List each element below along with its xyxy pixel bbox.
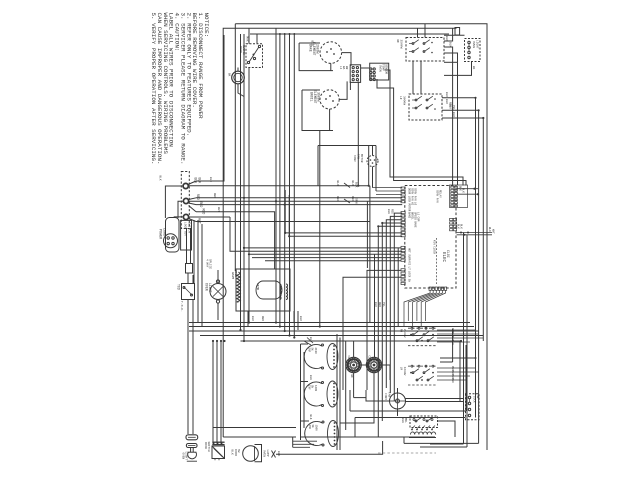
svg-text:BLK: BLK: [449, 104, 452, 109]
svg-text:MAX: MAX: [246, 37, 249, 42]
svg-text:SW: SW: [237, 449, 240, 453]
svg-text:4 WAY: 4 WAY: [206, 259, 209, 268]
splice RED on supply: [336, 196, 358, 204]
svg-text:1500: 1500: [314, 425, 317, 432]
wire ELEC bus stubs up: [284, 190, 402, 237]
label lamp LT2: [263, 450, 269, 458]
wire ELEC P5 feeds: [343, 270, 401, 390]
svg-text:CONV: CONV: [353, 155, 356, 162]
switch SW6 RR surface: [400, 327, 438, 346]
motor M5 fan: [384, 392, 406, 409]
bake element E1: [309, 42, 342, 64]
svg-text:BROIL: BROIL: [310, 92, 314, 102]
svg-text:FAN: FAN: [357, 154, 360, 159]
svg-text:BLK: BLK: [309, 375, 312, 380]
svg-text:1200W: 1200W: [403, 367, 406, 376]
svg-text:BLK: BLK: [355, 182, 358, 188]
broil element E2: [310, 90, 340, 109]
svg-text:INF: INF: [308, 425, 311, 430]
border outer frame: [235, 24, 487, 450]
label lower bus: [251, 316, 302, 321]
svg-text:BLK: BLK: [309, 415, 312, 420]
svg-text:DOOR LOCK MOTOR: DOOR LOCK MOTOR: [408, 188, 411, 212]
svg-text:BLK: BLK: [159, 176, 162, 181]
svg-text:RF: RF: [396, 40, 399, 44]
wire N left bus: [240, 34, 242, 330]
wire long run to control: [230, 217, 402, 251]
wire center drops: [276, 28, 320, 337]
svg-text:HOLD: HOLD: [234, 270, 237, 277]
wire broil loop: [302, 81, 350, 130]
wire bus lower: [189, 323, 483, 342]
wire selector left links: [301, 337, 313, 440]
svg-text:BLK: BLK: [445, 92, 448, 97]
svg-text:SW: SW: [311, 348, 314, 352]
svg-text:LAMP: LAMP: [266, 450, 269, 457]
svg-text:CONV FAN: CONV FAN: [436, 190, 439, 203]
svg-text:OVEN: OVEN: [182, 453, 185, 460]
oven control U1 ELEC: [405, 186, 456, 289]
border inner frame: [223, 28, 459, 438]
svg-text:BK: BK: [228, 73, 231, 77]
motor M2 convection (dashed): [353, 154, 378, 167]
wire unit3 bottom links: [293, 437, 317, 447]
svg-text:XFMR: XFMR: [256, 283, 259, 290]
svg-text:2100W: 2100W: [403, 329, 406, 338]
wire right-bottom verticals: [460, 341, 466, 411]
svg-text:OVEN: OVEN: [379, 65, 382, 72]
wire splice corner drops: [367, 186, 370, 323]
svg-text:3000W: 3000W: [402, 96, 405, 105]
connector P2 pins (left top): [401, 187, 417, 212]
svg-text:POWER: POWER: [158, 229, 162, 239]
svg-text:LF: LF: [399, 96, 402, 100]
svg-text:SW: SW: [476, 395, 479, 399]
svg-text:BROIL: BROIL: [411, 212, 414, 220]
wire SW7 top feeds: [440, 357, 477, 359]
svg-text:CLK: CLK: [347, 356, 350, 361]
wire terminal drops: [194, 220, 202, 327]
svg-text:BLK: BLK: [488, 227, 491, 232]
wire center lower drops: [213, 341, 221, 443]
svg-text:OVEN: OVEN: [205, 283, 209, 291]
wire fan feeds: [366, 388, 463, 416]
connector P5 pins (left bottom): [401, 269, 411, 285]
svg-text:2100: 2100: [314, 348, 317, 355]
svg-text:CONV: CONV: [384, 393, 387, 400]
resistor R1 element: [231, 270, 240, 302]
svg-text:RED: RED: [451, 378, 454, 383]
lamp LT2 oven bottom: [243, 445, 262, 462]
svg-text:CONV FAN LO: CONV FAN LO: [414, 188, 417, 206]
svg-text:SPLICE: SPLICE: [209, 259, 212, 269]
svg-text:SWITCH: SWITCH: [188, 222, 191, 233]
svg-text:RED: RED: [196, 194, 200, 200]
svg-text:LIGHT: LIGHT: [208, 283, 212, 293]
label fuse area: [206, 259, 212, 269]
switch SW9 lock column: [466, 394, 480, 420]
svg-text:RED: RED: [199, 202, 203, 208]
wire L1 left bus: [234, 24, 236, 271]
svg-text:BAKE: BAKE: [408, 212, 411, 219]
wire transformer drops: [244, 311, 298, 330]
selector switch SW5A: [304, 344, 338, 370]
svg-text:BLK: BLK: [299, 316, 302, 321]
svg-text:CLK: CLK: [368, 356, 371, 361]
wire ELEC P2 feeds: [373, 188, 403, 195]
wire bake loop: [299, 41, 351, 71]
svg-text:CORD: CORD: [162, 228, 166, 236]
svg-text:TEMP: TEMP: [382, 64, 385, 71]
wire contact column drops: [337, 334, 346, 450]
svg-text:RR: RR: [400, 329, 403, 333]
svg-text:BLK: BLK: [251, 316, 254, 321]
svg-text:INF: INF: [308, 348, 311, 353]
selector switch SW5C: [305, 421, 339, 447]
timer motor M3 (detailed): [346, 356, 361, 379]
wire RED supply runs: [189, 198, 403, 205]
svg-text:WHT: WHT: [217, 207, 220, 212]
connector P7 pins (right top): [436, 185, 468, 208]
svg-text:DOOR: DOOR: [234, 449, 237, 456]
svg-text:BLK: BLK: [445, 99, 448, 104]
svg-text:FAN: FAN: [387, 392, 390, 397]
svg-text:LIGHT: LIGHT: [476, 40, 479, 49]
sensor S1 oven: [370, 63, 389, 80]
transformer T1: [256, 281, 287, 300]
svg-text:BLK: BLK: [401, 418, 404, 423]
switch SW3 oven light: [465, 39, 481, 62]
wire top inner run: [250, 33, 449, 35]
power cord plug P1: [158, 218, 180, 253]
svg-text:HOT SURFACE LT: HOT SURFACE LT: [408, 248, 411, 270]
connector P8 bottom header: [404, 287, 447, 327]
svg-text:LOCK: LOCK: [473, 396, 476, 403]
label trunk wires: [374, 302, 385, 307]
svg-text:BR: BR: [345, 66, 348, 70]
terminal arrow bottom: [272, 451, 281, 458]
svg-text:SENSOR: SENSOR: [385, 64, 388, 74]
svg-text:BLK: BLK: [351, 181, 354, 187]
wire SW6 terminals: [437, 328, 483, 345]
svg-text:YEL: YEL: [382, 302, 385, 307]
svg-text:INF: INF: [308, 385, 311, 390]
connector J1: [339, 65, 361, 83]
ELEC interior divider: [433, 238, 437, 285]
svg-text:2500W: 2500W: [399, 40, 402, 49]
notes text block: [150, 13, 210, 165]
wire selector feed diagonals: [304, 338, 313, 346]
wire SW1 terminals: [444, 28, 458, 185]
svg-text:RED: RED: [391, 209, 394, 214]
svg-text:BLK: BLK: [460, 224, 463, 229]
label box LOCK-OUT: [181, 220, 192, 250]
relay K1 door lock: [239, 37, 263, 68]
svg-text:DOOR: DOOR: [204, 442, 207, 449]
svg-text:ELEMENT: ELEMENT: [313, 90, 317, 103]
svg-text:DOOR: DOOR: [239, 46, 242, 53]
wire L2 left bus: [243, 34, 245, 341]
svg-text:SWITCH: SWITCH: [242, 45, 245, 55]
wire bottom bus: [223, 437, 478, 443]
svg-text:OVEN: OVEN: [263, 450, 266, 457]
svg-text:BK: BK: [350, 375, 353, 379]
svg-text:L1 COM: L1 COM: [417, 212, 420, 222]
oven lamp LT1: [205, 270, 227, 320]
splice BLK on supply: [336, 181, 358, 188]
connector P3 pins (left mid): [401, 212, 420, 237]
svg-text:BLK: BLK: [451, 340, 454, 345]
wire SW3 stub: [444, 35, 475, 75]
oven light assembly PB1: [182, 435, 198, 461]
wire SW6 to SW7 link: [440, 329, 453, 362]
svg-text:ELEC: ELEC: [441, 252, 445, 263]
svg-text:RED: RED: [202, 209, 206, 215]
svg-text:SW: SW: [311, 425, 314, 429]
label wire RED: [196, 194, 206, 214]
svg-text:LOCK SW: LOCK SW: [408, 271, 411, 282]
svg-text:BLK: BLK: [449, 42, 452, 47]
svg-text:CLOC: CLOC: [446, 250, 450, 258]
label wire BLK: [194, 178, 202, 184]
label mid supply: [209, 177, 220, 212]
wire rotary runs: [340, 341, 390, 423]
svg-text:SPEED BAKE: SPEED BAKE: [414, 212, 417, 228]
switch SW1 RF surface: [396, 38, 444, 62]
svg-text:BLK: BLK: [387, 209, 390, 214]
fuse F1: [186, 228, 193, 273]
wire cord to terminals: [159, 176, 184, 219]
svg-text:LIGHT: LIGHT: [185, 452, 188, 461]
svg-text:MOTOR: MOTOR: [360, 154, 363, 163]
selector switch SW5B: [304, 381, 338, 407]
wire sensor runs: [358, 68, 466, 186]
wire bus mid verticals: [420, 233, 467, 448]
svg-text:BLK: BLK: [452, 112, 455, 117]
svg-text:T.O.D.: T.O.D.: [180, 301, 183, 312]
svg-text:BA: BA: [342, 66, 345, 70]
wire conv motor feed: [318, 146, 376, 192]
svg-text:BLK: BLK: [374, 302, 377, 307]
svg-text:ORN: ORN: [355, 198, 358, 204]
switch SW4 door: [204, 442, 225, 461]
svg-text:RED: RED: [261, 316, 264, 321]
switch SW8 warmer: [410, 416, 438, 428]
wire W supply runs: [189, 206, 370, 270]
wire lower-right runs: [350, 390, 466, 437]
wire faint bottom dashed: [378, 452, 436, 454]
svg-text:SWITCH: SWITCH: [207, 442, 210, 452]
svg-text:BLK: BLK: [231, 450, 234, 455]
wire top feed drops: [249, 24, 425, 94]
connector P4 pins (left lower): [401, 246, 411, 270]
connector P6 pins (right): [450, 218, 463, 230]
svg-text:CONV FAN HI: CONV FAN HI: [411, 188, 414, 206]
svg-text:SW: SW: [311, 385, 314, 389]
label door switch: [231, 449, 241, 456]
wire ELEC P7 runs to right bus: [457, 188, 480, 196]
svg-text:LOCK OUT: LOCK OUT: [184, 222, 187, 237]
wire SW7 terminals: [437, 366, 479, 383]
svg-text:RELAY: RELAY: [439, 190, 442, 198]
svg-text:WHT: WHT: [492, 229, 495, 234]
svg-text:BLK: BLK: [194, 178, 198, 184]
svg-text:RED: RED: [378, 302, 381, 307]
wire lamp feed run: [213, 427, 296, 429]
wire ELEC P4 feeds: [243, 247, 401, 357]
switch SW2 LF surface: [399, 94, 442, 120]
wire ELEC P6 runs to right bus: [457, 227, 495, 236]
wire TOD drops: [188, 273, 193, 434]
terminal block TB1: [181, 172, 189, 229]
wire BLK supply run: [188, 35, 369, 186]
junction dots on buses: [212, 97, 485, 342]
svg-text:BLK: BLK: [336, 181, 339, 187]
svg-text:5. VERIFY PROPER OPERATION AFT: 5. VERIFY PROPER OPERATION AFTER SERVICI…: [150, 13, 157, 165]
label right bus corners: [445, 92, 455, 117]
svg-text:1200: 1200: [314, 385, 317, 392]
svg-text:BLK: BLK: [209, 177, 212, 182]
svg-text:BLK: BLK: [311, 41, 314, 47]
svg-text:WARM: WARM: [231, 272, 234, 279]
wire right bus: [442, 98, 483, 444]
svg-text:BLK: BLK: [198, 178, 202, 184]
motor M1 lock: [228, 68, 245, 84]
svg-text:BLK: BLK: [445, 36, 448, 41]
switch SW7 LR surface: [400, 365, 438, 385]
svg-text:RED: RED: [336, 196, 339, 202]
svg-text:RED: RED: [213, 193, 216, 198]
spark module box: [236, 269, 290, 311]
svg-text:TOD: TOD: [177, 284, 181, 290]
label wire WHT: [198, 218, 202, 224]
svg-text:3600W: 3600W: [317, 92, 321, 102]
wire ELEC P3 trunk drops: [378, 209, 402, 437]
label SW8: [401, 418, 433, 423]
svg-text:RED: RED: [351, 196, 354, 202]
svg-text:LR: LR: [400, 367, 403, 371]
svg-text:MDL: MDL: [404, 418, 407, 423]
svg-text:MIN CLOCK: MIN CLOCK: [433, 240, 436, 254]
svg-text:BLK: BLK: [457, 224, 460, 229]
thermal switch TOD: [177, 284, 195, 313]
wire bottom lamp run: [276, 441, 383, 454]
svg-text:BK: BK: [472, 66, 475, 70]
svg-text:2605W: 2605W: [316, 44, 320, 54]
wire lock loop: [238, 68, 249, 323]
svg-text:OVEN: OVEN: [472, 41, 475, 48]
svg-text:L1: L1: [339, 66, 342, 70]
label SW2 terminals: [445, 99, 455, 110]
timer motor M4 (detailed): [366, 356, 381, 373]
switch SW8 contacts row: [409, 426, 436, 438]
